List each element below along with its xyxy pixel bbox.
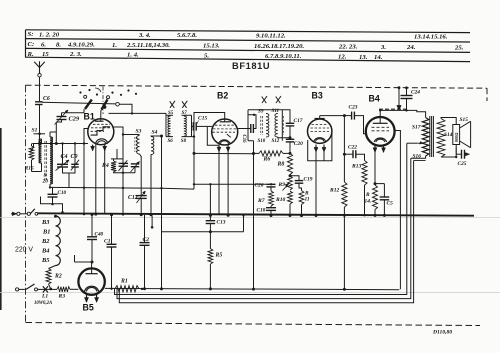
capacitor C40 [91,215,93,237]
wire C10 box [41,197,63,214]
table bottom line [26,57,471,61]
wire B1 grid left [84,129,88,214]
switch lever 2 [102,100,108,110]
svg-text:6.: 6. [41,41,46,48]
svg-text:C16: C16 [241,135,246,144]
resistor R13 [362,161,367,186]
wire secondary top [441,118,456,125]
svg-text:R12: R12 [329,188,340,194]
svg-text:C22: C22 [348,145,357,151]
node antenna/tank [38,142,41,145]
resistor R11 [299,191,304,205]
capacitor C13 [209,184,211,220]
svg-text:C18: C18 [257,208,266,214]
tube B1 grids [93,123,110,125]
wire C25 drop [455,148,457,154]
svg-text:C17: C17 [294,118,303,124]
svg-text:C5: C5 [387,201,394,207]
tube B2 envelope [212,119,238,145]
capacitor C15 [192,125,194,127]
svg-text:B5: B5 [83,303,94,313]
IF1 frame left [166,115,173,136]
wire B3 anode rail [320,115,345,117]
wire B1 screen right [113,127,123,214]
resistor R3 [51,288,57,290]
capacitor C8 trimmer [131,163,140,165]
node S4 bus [150,213,153,216]
tap S16 [417,142,423,144]
svg-text:6.7.8.9.10.11.: 6.7.8.9.10.11. [265,53,302,60]
capacitor C26 [267,183,276,185]
capacitor C7 trimmer [119,162,129,164]
tube B5 filament pins [86,295,88,302]
resistor R15 [31,144,33,147]
svg-text:24.: 24. [406,44,416,51]
wire tank cap box [63,167,76,187]
wire primary bottom [411,156,426,158]
coil S6 [168,126,171,136]
tube B2 pins [218,145,220,152]
switch contact dots [79,91,81,93]
svg-text:B4: B4 [41,248,49,255]
resistor R5 [209,232,211,249]
svg-text:5.: 5. [204,52,209,59]
wire B1 cathode to bus [95,145,97,215]
wire padder top rail [111,158,123,160]
wire switch to IF1 [109,112,167,114]
tube B2 g3 tie [227,134,231,137]
IF1 frame right [182,115,195,136]
frame top dashed [26,85,488,88]
mains terminal A [11,213,17,215]
tube B4 cathode [374,138,386,142]
node heater bus [54,215,57,218]
return line 1 [115,143,407,294]
svg-text:S7: S7 [182,111,188,116]
node C17/C20 [289,126,291,139]
svg-text:C20: C20 [294,141,303,147]
table left border [25,30,27,58]
wire B2 cathode to bus [227,151,229,215]
svg-text:C29: C29 [69,116,80,123]
coil S11 [275,114,278,138]
tube B2 grid return box [207,127,219,145]
svg-text:C12: C12 [128,195,138,201]
svg-text:C24: C24 [411,90,420,96]
switch lever 1 [85,100,92,110]
tube B1 envelope [88,119,114,145]
svg-text:20: 20 [42,179,49,185]
tube B4 grids [372,126,390,128]
resistor R14 [373,185,378,210]
coil S9 [266,114,269,138]
wire secondary bottom [441,145,456,158]
speaker voice coil [453,125,460,145]
node R11 bus [300,214,303,217]
node osc bus B [160,287,163,290]
tube B1 step electrode [91,127,111,135]
svg-text:B1: B1 [42,229,50,236]
wire AVC junction line [194,152,255,154]
svg-text:C4: C4 [61,154,68,160]
wire screen vertical [343,116,345,182]
svg-text:C19: C19 [304,177,313,183]
svg-text:R15: R15 [24,166,35,172]
capacitor C16 [237,128,251,130]
resistor R9 [288,176,293,190]
mains bus B [105,288,400,289]
svg-text:S6: S6 [168,139,174,144]
coil S4 [151,137,154,155]
svg-text:15: 15 [42,51,49,58]
svg-text:B4: B4 [369,94,380,104]
wire screen drop from frame [398,88,400,111]
wire osc line [50,187,194,189]
svg-text:R10: R10 [275,197,286,203]
tube B5 filament [85,286,99,291]
capacitor C4 variable [57,163,68,165]
table top line [26,30,471,33]
tube B3 pins [315,145,317,152]
svg-text:1. 4.: 1. 4. [127,52,139,59]
svg-text:22. 23.: 22. 23. [338,44,358,51]
resistor R1 [115,286,139,292]
tube B2 top lead [194,113,225,190]
coil core [44,141,46,180]
wire IF feed vertical [253,141,255,289]
coil S3 [137,136,140,155]
svg-text:3. 4.: 3. 4. [138,32,151,39]
wire anode rail dashed [379,108,407,110]
svg-text:C13: C13 [217,220,226,226]
wire B5 anode stub [75,255,93,262]
wire anode rail [380,110,425,117]
resistor R10 [288,191,293,204]
primary S17 winding [422,118,429,157]
tube B2 cathode [219,140,230,144]
svg-text:S14: S14 [444,132,453,138]
node C18 bus [270,214,273,217]
svg-text:B1: B1 [84,112,95,122]
svg-text:C2: C2 [143,237,150,243]
antenna [34,61,45,73]
svg-text:S1: S1 [32,128,38,134]
svg-text:R8: R8 [277,162,285,168]
capacitor C9 trimmer [71,163,79,165]
capacitor C2 [144,215,146,243]
IF2 frame [248,110,282,141]
capacitor C10 [52,187,54,194]
svg-text:R7: R7 [257,198,265,204]
resistor R6 [254,152,260,154]
svg-text:16.26.18.17.19.20.: 16.26.18.17.19.20. [254,43,304,50]
svg-text:C1: C1 [104,239,111,245]
capacitor C29 trimmer [55,122,57,144]
wire C9 lead [74,144,76,165]
tube B3 anode [319,116,321,119]
svg-text:2. 3.: 2. 3. [69,51,82,58]
node B2/AVC [193,152,196,155]
potentiometer wiper [283,184,289,191]
svg-text:R3: R3 [58,294,66,300]
return line 3 [119,161,413,303]
svg-text:13.14.15.16.: 13.14.15.16. [414,34,448,41]
svg-text:R1: R1 [120,279,128,285]
svg-text:4.9.10.29.: 4.9.10.29. [67,42,95,49]
svg-text:S17: S17 [412,125,421,131]
wire terminal elbow [119,104,132,113]
wire C23 to B4 grid [354,116,365,134]
table line S/C [26,39,471,42]
node IF2 top [253,114,255,116]
tube B1 anode bar [95,120,104,122]
coil S2 winding [39,139,42,163]
svg-text:9.10.11.12.: 9.10.11.12. [256,33,286,40]
wire tank line [32,143,88,145]
svg-text:C15: C15 [198,116,208,122]
svg-text:BF181U: BF181U [232,61,270,71]
svg-text:B5: B5 [41,257,50,264]
wire B3 pins to bus [315,152,317,216]
capacitor C6 [35,101,43,103]
adjust marks IF1 [170,101,175,108]
tube B3 cathode box [308,131,332,161]
wire S4 top [151,135,162,138]
svg-text:S11: S11 [272,109,280,114]
svg-text:R4: R4 [101,163,109,169]
svg-text:15.13.: 15.13. [203,43,220,50]
wire C29 to switch [62,112,85,114]
tube B5 envelope [78,268,104,294]
svg-text:L1: L1 [41,294,48,300]
frame bottom dashed [26,323,481,326]
table line C/R [26,48,471,52]
svg-text:C9: C9 [71,154,78,160]
tube B3 grids [312,123,329,125]
capacitor C18 [266,207,276,209]
node anode rail [379,109,381,111]
tube B3 cathode [314,138,326,142]
svg-text:C10: C10 [58,190,67,196]
chassis bus A [37,213,474,215]
terminal circle [116,102,120,106]
tube B3 envelope [308,119,332,143]
svg-text:2.5.11.18,14.30.: 2.5.11.18,14.30. [126,42,170,49]
svg-text:25.: 25. [454,45,464,52]
capacitor C12 [140,156,142,196]
node C12 bus [140,213,143,216]
svg-text:C6: C6 [43,96,50,102]
coil S10 core [260,116,262,135]
wire B4 screen drop [395,131,401,290]
svg-text:8.: 8. [56,41,61,48]
svg-text:800Ω: 800Ω [454,132,459,142]
svg-text:R5: R5 [215,253,223,259]
wire B4 cathode chain [374,152,376,184]
svg-text:C40: C40 [95,232,104,238]
coil S7 [184,116,187,126]
tube B4 envelope [366,117,395,146]
tube B4 pins [374,145,376,152]
svg-text:S5: S5 [168,111,174,116]
node R8 bottom [289,174,292,177]
tube B1 cathode [96,139,108,144]
node R13 bus [363,214,365,216]
svg-text:B3: B3 [41,219,50,226]
svg-text:R: R [365,192,370,198]
svg-text:B3: B3 [312,91,323,101]
node R12 bus [343,214,346,217]
fuse L1 [38,288,52,290]
svg-text:S4: S4 [152,130,158,136]
wire screen to S3 [123,134,140,136]
heater chain [56,216,61,266]
resistor R12 [342,182,347,207]
adjust marks IF2 [262,96,267,103]
svg-text:R2: R2 [54,274,62,280]
capacitor C22 [344,153,353,155]
svg-text:S:: S: [28,31,34,38]
tube B5 anode [91,262,93,274]
svg-text:S10: S10 [258,139,266,144]
wire S4 bottom [150,155,152,215]
capacitor C20 [286,138,295,140]
capacitor C1 [111,215,113,245]
capacitor C23 [344,115,351,117]
svg-text:220 V: 220 V [15,247,33,254]
secondary S14 winding [437,119,445,158]
svg-text:C23: C23 [349,105,358,111]
coil S20 winding [50,137,53,184]
svg-text:11: 11 [305,197,310,203]
svg-text:3.: 3. [380,44,386,51]
scan artifact faint line 2 [0,292,500,294]
transformer core [429,116,431,157]
svg-text:10W0,2A: 10W0,2A [34,301,52,306]
capacitor C19 [290,176,299,181]
wire tap return [414,160,426,162]
wire S12 bottom [278,136,290,139]
coil S5 [168,116,171,126]
capacitor C5 [380,196,390,198]
resistor R7 [269,191,274,206]
svg-text:C25: C25 [458,161,467,167]
svg-text:B2: B2 [217,91,228,101]
wire C16 to IF2 [248,115,256,129]
coil S8 [184,126,187,136]
tube B4 anode [379,117,381,123]
svg-text:C26: C26 [255,183,264,189]
mains terminal B [16,288,19,291]
tube B2 grids [215,124,234,126]
frame right dashed [486,88,488,101]
svg-text:S15: S15 [460,117,469,123]
switch gang dash-dot [102,87,104,115]
node R2 mains [50,288,52,290]
svg-text:14.: 14. [374,54,383,61]
scan edge artifact left [0,128,2,310]
wire B2 left pin down [218,151,220,215]
node R10 bus [289,214,292,217]
coil S12 core [282,116,284,135]
wire C6 to terminal [42,102,116,104]
speaker cone [460,121,471,147]
wire B1 heater down [104,150,106,214]
svg-text:1.: 1. [112,42,117,49]
resistor R8 [287,153,292,174]
tube B1 pins [92,145,94,151]
svg-text:R13: R13 [351,164,362,170]
wire osc grid vertical [161,136,163,289]
svg-text:R6: R6 [263,157,271,163]
wire B4 anode up [379,110,381,117]
svg-text:R9: R9 [278,182,286,188]
wire padder bottom [114,167,136,173]
resistor R4 [111,161,116,172]
wire antenna lead [39,77,41,102]
wire C22 to R13 [356,154,365,160]
node R6R8 [289,152,292,155]
wire AVC line [194,183,267,185]
wire B1 anode [100,111,102,121]
wire 231 line [162,215,244,231]
svg-text:5.6.7.8.: 5.6.7.8. [177,32,197,39]
svg-text:12.: 12. [338,54,347,61]
resistor R2 [49,266,56,269]
node C10 [51,203,53,205]
scan artifact faint line 1 [0,216,500,218]
svg-text:13.: 13. [359,54,368,61]
svg-text:S8: S8 [181,139,187,144]
svg-text:B2: B2 [41,238,50,245]
svg-text:R.: R. [27,51,34,58]
svg-text:D110,80: D110,80 [432,330,452,336]
return line 2 [117,158,411,298]
wire C4 lead [62,144,64,165]
svg-text:C:: C: [28,41,35,48]
capacitor C25 [456,153,461,155]
frame left dash-dot [25,85,27,322]
switch arc mark [95,88,101,92]
svg-text:1. 2. 20: 1. 2. 20 [39,31,60,38]
svg-text:S3: S3 [136,129,142,135]
svg-text:S12: S12 [272,139,280,144]
tube B2 anode bar [220,121,231,123]
svg-text:14.: 14. [365,199,372,205]
capacitor C24 [406,88,408,96]
svg-text:S9: S9 [258,109,264,115]
node C4 top [61,142,63,144]
node C29 tank [55,142,58,145]
capacitor C17 [282,110,290,124]
